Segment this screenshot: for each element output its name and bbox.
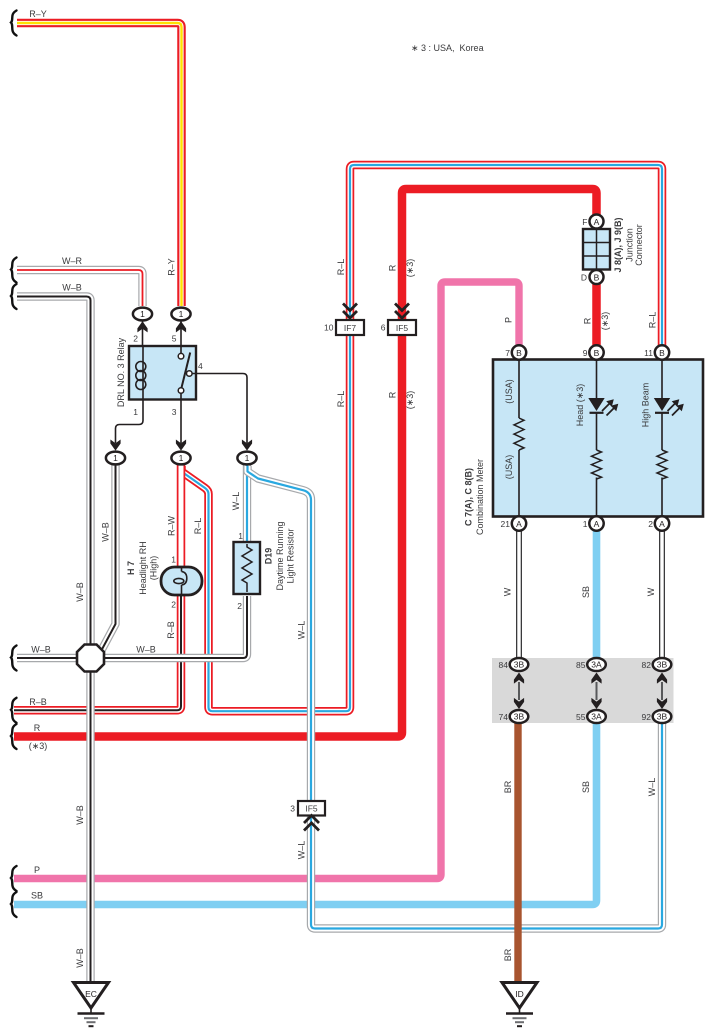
svg-text:(∗3): (∗3)	[405, 391, 415, 410]
svg-text:3B: 3B	[657, 712, 668, 722]
wire R-L: headlight branch to IF7 up across to pin 11(B)	[182, 165, 663, 711]
connector 55(3A)	[587, 710, 606, 723]
svg-text:P: P	[34, 865, 40, 875]
wire R thick (*3): brace to IF5 up to junction connector to pin 9(B)	[14, 189, 597, 737]
junction connector J 8(A), J 9(B)	[583, 229, 610, 270]
svg-text:IF5: IF5	[305, 804, 318, 814]
svg-text:R–B: R–B	[166, 621, 176, 639]
svg-text:W: W	[646, 587, 656, 596]
connector IF5 (6)	[388, 304, 416, 336]
node octagon junction W-B	[77, 645, 104, 672]
svg-text:2: 2	[648, 519, 653, 529]
wire SB: 55(3A) down and left to brace	[14, 716, 597, 905]
meter column 2: Head (*3) LED and resistor	[588, 360, 618, 516]
wire relay pin 4 to connector above D19	[192, 374, 247, 444]
arrow between 82(3B) and 92(3B)	[657, 673, 667, 710]
svg-text:B: B	[659, 348, 665, 358]
lamp H7 Headlight RH (High)	[161, 567, 202, 595]
svg-text:BR: BR	[503, 948, 513, 961]
connector 1 below relay pin 4 above D19	[237, 440, 256, 465]
connector 85(3A)	[587, 658, 606, 671]
svg-text:Head (∗3): Head (∗3)	[575, 384, 585, 427]
wire W: meter pin 2(A) to 82(3B)	[659, 530, 665, 662]
svg-text:W: W	[503, 587, 513, 596]
svg-text:84: 84	[499, 660, 509, 670]
svg-text:R–B: R–B	[29, 697, 47, 707]
svg-text:Connector: Connector	[634, 224, 644, 266]
junction block gray panel	[492, 658, 674, 723]
svg-text:(∗3): (∗3)	[600, 312, 610, 331]
svg-text:W–B: W–B	[31, 645, 51, 655]
svg-text:A: A	[516, 519, 522, 529]
label H 7 Headlight RH (High)	[126, 541, 159, 595]
svg-text:R: R	[388, 391, 398, 398]
wire P: bottom-left brace up to pin 7(B)	[14, 282, 519, 879]
svg-text:R–L: R–L	[193, 518, 203, 535]
wire W-B: relay pin 1 connector down diagonal into octagon junction	[100, 464, 116, 653]
svg-text:F: F	[582, 217, 587, 227]
svg-text:High Beam: High Beam	[641, 383, 651, 428]
svg-text:W–B: W–B	[136, 645, 156, 655]
brace W-B octagon	[11, 646, 17, 671]
resistor D19 Daytime Running Light Resistor box	[234, 542, 261, 594]
brace R-B	[11, 698, 17, 723]
wire BR: 74(3B) down to ground ID	[514, 716, 521, 983]
svg-text:Daytime Running: Daytime Running	[275, 521, 285, 590]
arrow between 85(3A) and 55(3A)	[591, 673, 601, 710]
connector 1 below relay pin 1	[106, 440, 125, 465]
svg-text:11: 11	[644, 348, 653, 358]
svg-text:3B: 3B	[514, 660, 525, 670]
ground ID	[502, 983, 537, 1027]
ground EC	[74, 983, 109, 1027]
brace W-R	[11, 258, 17, 283]
brace SB	[11, 892, 17, 917]
connector 1 above relay pin 2	[133, 308, 152, 333]
svg-text:3: 3	[172, 407, 177, 417]
pin B of junction connector	[590, 270, 604, 284]
wire W-L: connector down to resistor D19 pin 1	[243, 464, 251, 546]
svg-text:3A: 3A	[591, 712, 602, 722]
svg-text:A: A	[594, 519, 600, 529]
arrow between 84(3B) and 74(3B)	[514, 673, 524, 710]
svg-text:W–B: W–B	[75, 582, 85, 602]
svg-text:5: 5	[172, 334, 177, 344]
svg-text:IF7: IF7	[344, 323, 357, 333]
wire W-L: lower IF5 down right and up to 92(3B)	[311, 716, 662, 929]
relay switch contacts and blade	[178, 346, 192, 399]
svg-text:W–B: W–B	[75, 948, 85, 968]
svg-text:R–L: R–L	[336, 391, 346, 408]
svg-text:A: A	[659, 519, 665, 529]
wire R-W: relay pin 3 connector down to headlight pin 1	[177, 464, 186, 570]
svg-text:H 7: H 7	[126, 561, 136, 575]
wire SB: meter pin 1(A) to 85(3A)	[593, 530, 601, 662]
svg-text:3B: 3B	[514, 712, 525, 722]
svg-text:SB: SB	[31, 891, 43, 901]
svg-text:74: 74	[499, 712, 509, 722]
svg-text:W–B: W–B	[75, 805, 85, 825]
wire relay pin 1 down left	[116, 399, 144, 443]
svg-text:W–R: W–R	[62, 256, 83, 266]
svg-text:DRL NO. 3 Relay: DRL NO. 3 Relay	[116, 337, 126, 407]
svg-text:D: D	[581, 273, 587, 283]
svg-text:55: 55	[576, 712, 586, 722]
pin 7(B) of combination meter	[512, 345, 526, 359]
pin 9(B) of combination meter	[589, 345, 603, 359]
connector 74(3B)	[510, 710, 529, 723]
svg-text:W–L: W–L	[297, 621, 307, 640]
svg-text:6: 6	[381, 323, 386, 333]
svg-text:BR: BR	[503, 780, 513, 793]
svg-text:92: 92	[642, 712, 652, 722]
pin 11(B) of combination meter	[655, 345, 669, 359]
svg-text:3A: 3A	[591, 660, 602, 670]
wire W-B: octagon down to ground EC	[86, 671, 94, 983]
svg-text:R–L: R–L	[648, 312, 658, 329]
connector 84(3B)	[510, 658, 529, 671]
relay DRL NO. 3 Relay box	[129, 346, 196, 400]
svg-text:A: A	[594, 217, 600, 227]
label D19 Daytime Running Light Resistor	[264, 521, 296, 590]
svg-text:W–L: W–L	[297, 841, 307, 860]
svg-text:(High): (High)	[149, 556, 159, 581]
connector 1 above relay pin 5	[171, 308, 190, 333]
svg-text:W–B: W–B	[62, 283, 82, 293]
svg-text:(USA): (USA)	[504, 455, 514, 480]
svg-text:2: 2	[171, 600, 176, 610]
svg-text:R: R	[583, 317, 593, 324]
svg-text:IF5: IF5	[396, 323, 409, 333]
svg-text:10: 10	[324, 323, 334, 333]
label J 8(A), J 9(B) Junction Connector	[613, 217, 644, 272]
svg-text:4: 4	[198, 361, 203, 371]
connector 92(3B)	[653, 710, 672, 723]
brace R-Y	[11, 11, 17, 36]
meter column 1 line with resistor (USA)	[514, 360, 524, 516]
svg-text:1: 1	[179, 453, 184, 463]
svg-text:B: B	[594, 348, 600, 358]
svg-text:9: 9	[583, 348, 588, 358]
svg-text:ID: ID	[515, 989, 524, 999]
combination meter C 7(A), C 8(B) box	[493, 360, 703, 517]
wire R-B: left brace up to headlight pin 2	[14, 596, 181, 710]
svg-text:R: R	[34, 723, 41, 733]
svg-text:W–L: W–L	[647, 778, 657, 797]
svg-text:J 8(A), J 9(B): J 8(A), J 9(B)	[613, 217, 623, 272]
svg-text:2: 2	[237, 601, 242, 611]
pin 21(A) of combination meter	[512, 516, 526, 530]
brace R	[11, 724, 17, 749]
svg-text:3B: 3B	[657, 660, 668, 670]
connector 1 below relay pin 3	[171, 440, 190, 465]
connector 82(3B)	[653, 658, 672, 671]
label C 7(A), C 8(B) Combination Meter	[464, 459, 486, 535]
svg-text:R–Y: R–Y	[29, 9, 47, 19]
svg-text:1: 1	[113, 453, 118, 463]
svg-text:(∗3): (∗3)	[29, 741, 48, 751]
svg-text:B: B	[594, 272, 600, 282]
svg-text:P: P	[504, 317, 514, 323]
svg-text:R: R	[388, 264, 398, 271]
svg-text:1: 1	[179, 309, 184, 319]
svg-text:∗ 3 : USA, Korea: ∗ 3 : USA, Korea	[411, 43, 484, 53]
svg-text:R–Y: R–Y	[167, 258, 177, 276]
svg-text:1: 1	[583, 519, 588, 529]
svg-text:B: B	[516, 348, 522, 358]
wire W-L: branch from connector to lower IF5	[248, 466, 312, 803]
relay coil (pin 2 to pin 1)	[136, 346, 146, 399]
wire W-B: brace to octagon left	[17, 654, 77, 662]
svg-text:Combination Meter: Combination Meter	[475, 459, 485, 535]
wire W-B: octagon right up to D19 pin 2	[103, 596, 247, 658]
svg-text:SB: SB	[581, 586, 591, 598]
wire W: meter pin 21(A) to 84(3B)	[516, 530, 522, 662]
svg-text:2: 2	[133, 334, 138, 344]
svg-text:82: 82	[642, 660, 652, 670]
svg-text:Headlight RH: Headlight RH	[138, 541, 148, 595]
svg-text:1: 1	[171, 555, 176, 565]
connector IF7 (10)	[336, 304, 364, 336]
connector IF5 (3) lower	[298, 801, 325, 831]
wire W-R: left brace to relay pin 2 connector	[17, 270, 143, 306]
svg-text:(USA): (USA)	[504, 379, 514, 404]
brace W-B top	[11, 284, 17, 309]
svg-text:R–L: R–L	[336, 259, 346, 276]
wire W-B: left brace down left side to octagon junction	[17, 297, 91, 646]
svg-text:1: 1	[140, 309, 145, 319]
svg-text:W–B: W–B	[101, 522, 111, 542]
pin 2(A) of combination meter	[655, 516, 669, 530]
svg-text:C 7(A), C 8(B): C 7(A), C 8(B)	[464, 468, 474, 526]
svg-text:1: 1	[245, 453, 250, 463]
brace P	[11, 866, 17, 891]
svg-text:21: 21	[501, 519, 511, 529]
wire relay pin 5 stub above box	[180, 320, 182, 346]
meter column 3: High Beam LED and resistor	[654, 360, 684, 516]
svg-text:D19: D19	[264, 548, 274, 565]
pin 1(A) of combination meter	[589, 516, 603, 530]
svg-text:(∗3): (∗3)	[405, 259, 415, 278]
svg-text:7: 7	[505, 348, 510, 358]
wire relay pin 3 down	[180, 399, 182, 443]
svg-text:SB: SB	[581, 781, 591, 793]
wire relay pin 2 stub above box	[142, 320, 144, 346]
svg-text:Light Resistor: Light Resistor	[286, 528, 296, 583]
svg-text:R–W: R–W	[167, 515, 177, 536]
svg-text:Junction: Junction	[625, 228, 635, 262]
svg-text:W–L: W–L	[231, 492, 241, 511]
svg-text:EC: EC	[85, 989, 97, 999]
svg-text:1: 1	[238, 531, 243, 541]
svg-text:1: 1	[133, 407, 138, 417]
pin A of junction connector	[590, 215, 604, 229]
svg-text:3: 3	[290, 804, 295, 814]
svg-text:85: 85	[576, 660, 586, 670]
wire R-Y: top-left brace to relay pin 5 connector	[17, 23, 182, 306]
